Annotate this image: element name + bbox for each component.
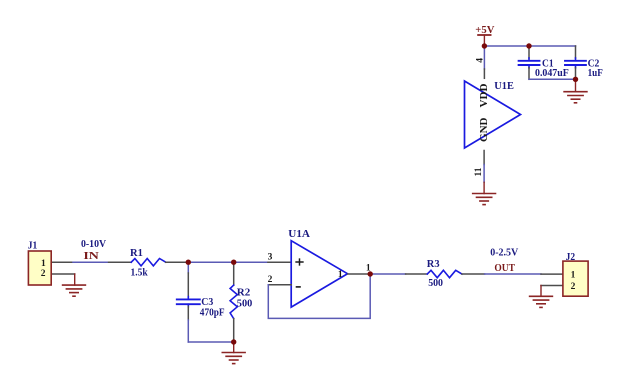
- svg-text:0-2.5V: 0-2.5V: [490, 247, 518, 259]
- svg-text:0.047uF: 0.047uF: [535, 68, 569, 79]
- svg-text:R1: R1: [130, 247, 143, 259]
- svg-text:1uF: 1uF: [588, 68, 603, 79]
- svg-text:1: 1: [366, 263, 371, 273]
- svg-text:3: 3: [268, 252, 273, 262]
- svg-text:R3: R3: [427, 258, 440, 270]
- svg-text:U1E: U1E: [494, 80, 514, 92]
- svg-text:2: 2: [268, 275, 273, 285]
- svg-text:J1: J1: [28, 239, 38, 251]
- svg-text:470pF: 470pF: [200, 307, 225, 318]
- svg-text:500: 500: [428, 278, 443, 289]
- svg-text:1: 1: [41, 259, 46, 269]
- svg-text:2: 2: [571, 282, 576, 292]
- svg-text:0-10V: 0-10V: [81, 238, 106, 250]
- svg-text:500: 500: [237, 299, 253, 310]
- svg-text:1.5k: 1.5k: [131, 267, 149, 278]
- svg-text:GND: GND: [479, 117, 490, 142]
- svg-text:4: 4: [475, 58, 485, 63]
- svg-text:J2: J2: [566, 251, 576, 263]
- svg-text:U1A: U1A: [288, 228, 310, 240]
- svg-text:+5V: +5V: [475, 24, 494, 36]
- svg-text:11: 11: [474, 167, 484, 176]
- svg-text:C3: C3: [201, 296, 213, 308]
- svg-text:1: 1: [571, 271, 576, 281]
- svg-text:2: 2: [41, 269, 46, 279]
- svg-text:R2: R2: [237, 286, 251, 298]
- svg-text:IN: IN: [83, 250, 99, 262]
- svg-text:VDD: VDD: [479, 83, 490, 107]
- svg-text:OUT: OUT: [494, 262, 515, 274]
- svg-text:1: 1: [338, 270, 343, 280]
